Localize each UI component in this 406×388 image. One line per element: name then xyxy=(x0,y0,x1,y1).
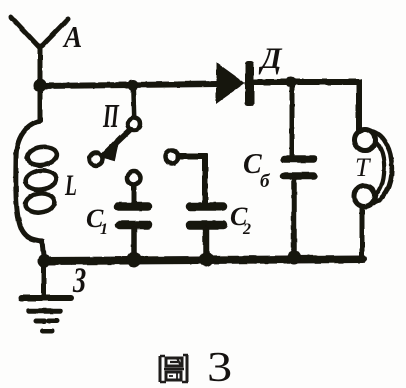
svg-text:Д: Д xyxy=(258,42,283,75)
svg-text:3: 3 xyxy=(207,345,232,388)
svg-text:L: L xyxy=(64,169,77,202)
svg-text:Т: Т xyxy=(355,153,371,182)
svg-text:П: П xyxy=(102,98,119,136)
svg-text:1: 1 xyxy=(100,221,108,238)
svg-text:З: З xyxy=(72,260,86,300)
svg-text:2: 2 xyxy=(242,221,251,238)
svg-text:б: б xyxy=(260,171,271,192)
svg-text:А: А xyxy=(62,20,82,54)
